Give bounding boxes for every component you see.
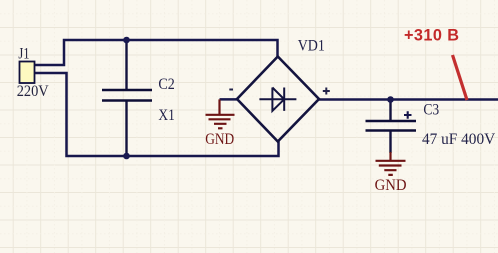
junction dot at C2 top: [123, 37, 130, 44]
junction dot at C2 bottom: [123, 153, 130, 160]
svg-text:C2: C2: [158, 75, 174, 93]
junction dot at C3 top: [387, 96, 394, 103]
wire: C2 top lead: [125, 40, 127, 90]
wire: output rail from bridge right to edge: [319, 98, 498, 101]
svg-text:+310 B: +310 B: [404, 27, 459, 45]
connector J1 body: [20, 62, 35, 84]
svg-text:J1: J1: [18, 45, 29, 63]
svg-text:GND: GND: [375, 176, 407, 194]
svg-text:C3: C3: [423, 101, 439, 119]
capacitor C3 polarized: [366, 121, 417, 131]
svg-text:GND: GND: [205, 130, 234, 148]
bridge rectifier VD1 diamond: [237, 57, 319, 142]
diode inside VD1: [259, 88, 296, 111]
svg-text:47 uF 400V: 47 uF 400V: [422, 130, 495, 148]
minus mark at bridge left: [229, 89, 233, 91]
wire: J1 pin2 to bottom rail to bridge bottom: [35, 73, 279, 156]
ground at bridge left: [206, 99, 235, 128]
svg-text:VD1: VD1: [298, 36, 325, 54]
net flag line (red): [453, 55, 468, 100]
wire: J1 pin1 to top rail to bridge top: [35, 40, 278, 65]
ground under C3: [376, 152, 406, 175]
svg-text:X1: X1: [158, 106, 174, 124]
wire: C3 bottom lead: [389, 131, 391, 154]
plus mark of C3: [404, 111, 412, 119]
capacitor C2: [102, 90, 152, 101]
wire: C3 top lead: [389, 100, 391, 122]
plus mark at bridge right: [323, 88, 330, 95]
wire: C2 bottom lead: [125, 101, 127, 157]
wire: bridge left vertex to GND: [220, 98, 238, 101]
svg-text:220V: 220V: [17, 82, 49, 100]
